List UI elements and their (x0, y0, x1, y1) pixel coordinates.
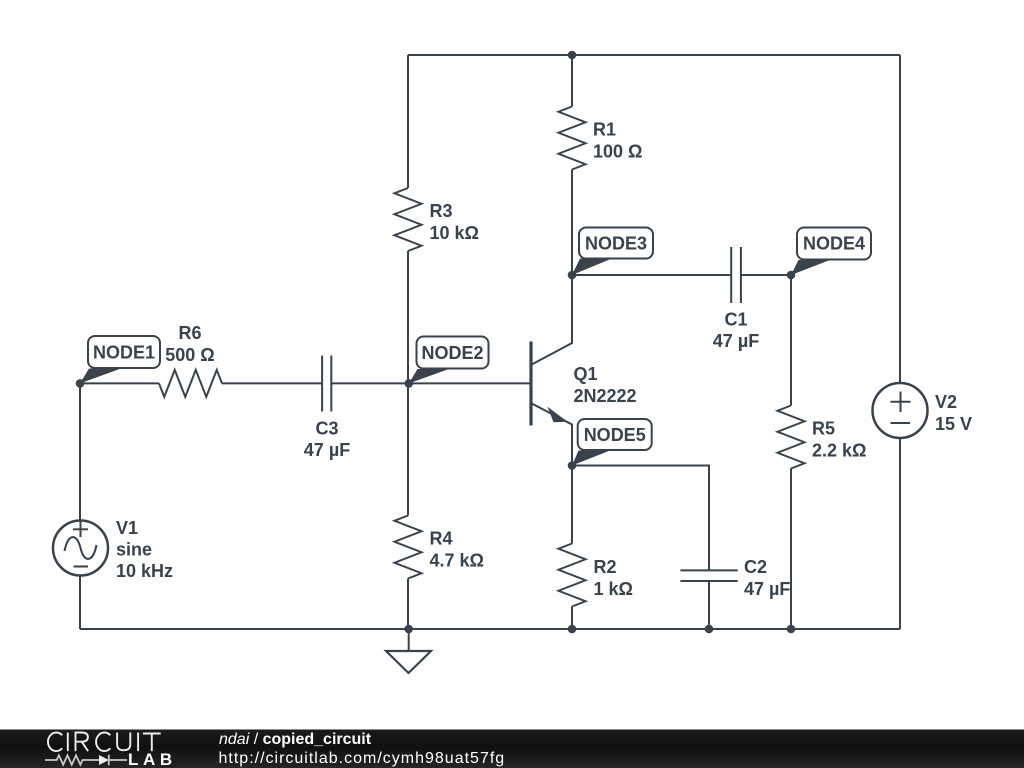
junction R2 bottom (568, 625, 577, 634)
svg-text:47 µF: 47 µF (713, 331, 759, 351)
svg-text:NODE1: NODE1 (93, 343, 155, 363)
svg-text:ndai / copied_circuit: ndai / copied_circuit (219, 731, 372, 748)
resistor R2 (559, 544, 586, 607)
wire NODE5 to R2 (571, 466, 573, 544)
junction C2 bottom (705, 625, 714, 634)
wire NODE4 to R5 (790, 275, 792, 406)
junction ground (404, 625, 413, 634)
resistor R1 (559, 107, 586, 170)
wire C2 to bottom rail (708, 581, 710, 629)
resistor R5 (778, 406, 805, 469)
wire NODE3 to C1 (572, 274, 731, 276)
svg-text:C1: C1 (724, 310, 747, 330)
svg-text:47 µF: 47 µF (304, 440, 350, 460)
wire NODE1 to R6 (80, 382, 159, 384)
svg-text:sine: sine (116, 540, 152, 560)
svg-text:R2: R2 (594, 557, 617, 577)
wire right rail lower (899, 438, 901, 629)
svg-text:NODE2: NODE2 (421, 343, 483, 363)
resistor R6 (159, 370, 222, 397)
svg-text:4.7 kΩ: 4.7 kΩ (430, 551, 484, 571)
wire NODE2 to R4 (407, 383, 409, 515)
wire top rail (408, 54, 900, 56)
svg-text:100 Ω: 100 Ω (593, 142, 642, 162)
wire C1 to NODE4 (741, 274, 791, 276)
wire R3 to NODE2 (407, 251, 409, 383)
wire R4 to ground rail (407, 579, 409, 630)
wire R3 branch top (407, 55, 409, 188)
wire R2 to bottom rail (571, 607, 573, 630)
svg-text:47 µF: 47 µF (744, 579, 790, 599)
wire R1 to NODE3 (571, 170, 573, 276)
wire NODE5 to C2 (572, 466, 709, 571)
wire NODE2 to Q1 base (408, 382, 531, 384)
wire R5 to bottom rail (790, 469, 792, 630)
resistor R3 (395, 188, 422, 251)
wire left rail lower (79, 576, 81, 630)
capacitor C2 (680, 557, 790, 599)
node NODE2 (405, 337, 489, 388)
footer bar (0, 730, 1024, 768)
voltage source V2 (873, 383, 973, 438)
wire bottom rail (80, 628, 900, 630)
svg-text:2N2222: 2N2222 (574, 386, 637, 406)
voltage source V1 (53, 518, 173, 581)
capacitor C1 (713, 247, 759, 351)
svg-text:NODE5: NODE5 (584, 425, 646, 445)
resistor R4 (395, 516, 422, 579)
svg-text:V2: V2 (935, 392, 957, 412)
svg-text:10 kHz: 10 kHz (116, 561, 173, 581)
wire R1 branch top (571, 55, 573, 107)
wire right rail upper (899, 55, 901, 383)
svg-text:C2: C2 (744, 557, 767, 577)
svg-text:R6: R6 (178, 323, 201, 343)
ground (386, 629, 431, 673)
svg-text:NODE3: NODE3 (585, 234, 647, 254)
transistor Q1 (531, 275, 637, 466)
svg-text:500 Ω: 500 Ω (165, 345, 214, 365)
node NODE3 (568, 228, 653, 280)
svg-text:R5: R5 (812, 419, 835, 439)
node NODE5 (568, 419, 652, 470)
svg-text:LAB: LAB (128, 750, 177, 768)
svg-text:R4: R4 (430, 529, 453, 549)
svg-text:NODE4: NODE4 (803, 234, 865, 254)
svg-text:1 kΩ: 1 kΩ (594, 579, 633, 599)
wire left rail upper (79, 383, 81, 520)
wire C3 to NODE2 (331, 382, 408, 384)
svg-text:10 kΩ: 10 kΩ (430, 223, 479, 243)
svg-text:Q1: Q1 (574, 364, 598, 384)
svg-text:http://circuitlab.com/cymh98ua: http://circuitlab.com/cymh98uat57fg (219, 750, 506, 767)
node NODE4 (787, 228, 871, 280)
svg-text:R3: R3 (430, 201, 453, 221)
svg-text:15 V: 15 V (935, 414, 972, 434)
capacitor C3 (304, 356, 350, 461)
wire R6 to C3 (222, 382, 322, 384)
node NODE1 (76, 336, 160, 388)
logo resistor-diode glyph (45, 755, 127, 766)
svg-text:2.2 kΩ: 2.2 kΩ (812, 441, 866, 461)
junction top rail (568, 51, 577, 60)
svg-text:V1: V1 (116, 518, 138, 538)
junction R5 bottom (787, 625, 796, 634)
svg-text:C3: C3 (315, 419, 338, 439)
CircuitLab logo wordmark CIRCUIT (48, 732, 161, 751)
svg-text:R1: R1 (593, 120, 616, 140)
